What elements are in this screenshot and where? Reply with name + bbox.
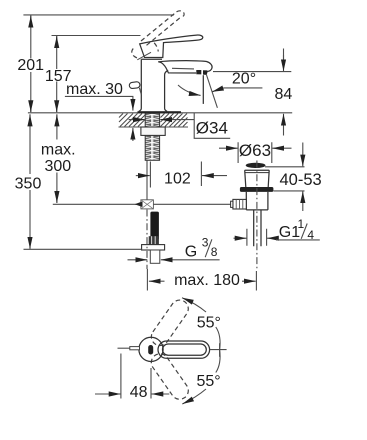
svg-text:84: 84 xyxy=(275,86,293,103)
svg-text:20°: 20° xyxy=(232,71,256,88)
svg-text:Ø63: Ø63 xyxy=(239,141,271,160)
svg-text:55°: 55° xyxy=(196,373,220,390)
svg-text:350: 350 xyxy=(15,176,42,193)
svg-text:max.: max. xyxy=(41,142,76,159)
svg-text:102: 102 xyxy=(164,171,191,188)
svg-text:max. 30: max. 30 xyxy=(66,81,123,98)
svg-text:G: G xyxy=(185,243,197,260)
svg-text:max. 180: max. 180 xyxy=(174,272,240,289)
svg-text:48: 48 xyxy=(130,384,148,401)
svg-text:Ø34: Ø34 xyxy=(196,119,228,138)
svg-text:3: 3 xyxy=(202,236,209,250)
svg-text:40-53: 40-53 xyxy=(279,171,321,189)
svg-text:55°: 55° xyxy=(197,315,221,332)
svg-text:8: 8 xyxy=(211,245,218,259)
svg-text:1: 1 xyxy=(298,217,305,231)
svg-text:201: 201 xyxy=(17,57,44,74)
svg-text:300: 300 xyxy=(44,158,71,175)
